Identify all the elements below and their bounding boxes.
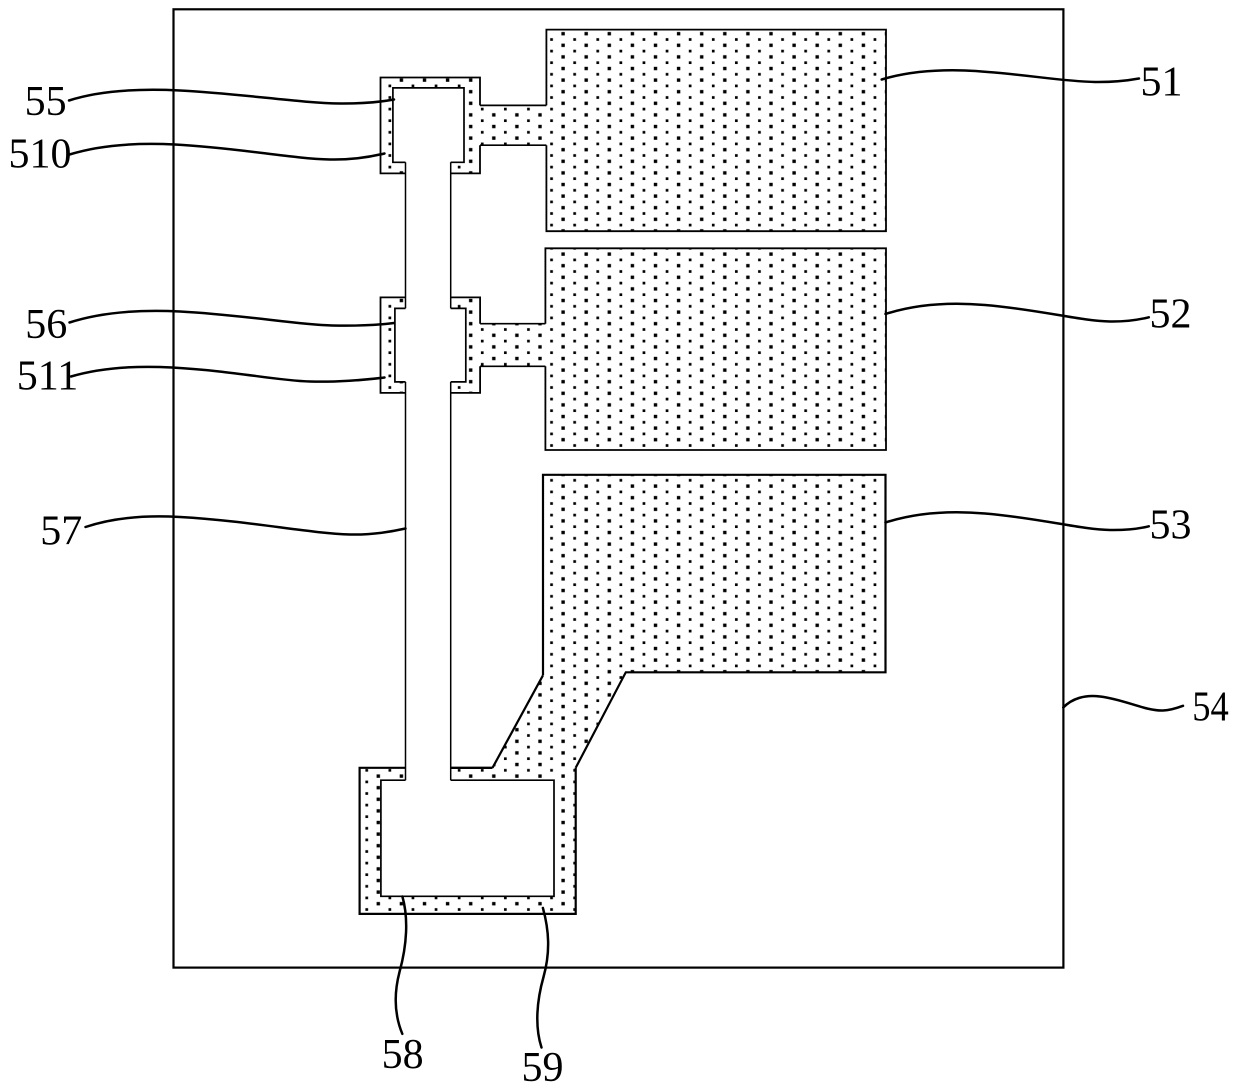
leader line 59 (537, 908, 548, 1048)
electrode 53 and bottom pad 59 dotted fill (360, 475, 886, 914)
svg-text:510: 510 (9, 132, 72, 178)
leader line 57 (86, 516, 406, 534)
svg-text:59: 59 (522, 1045, 564, 1091)
contact pad 56 outer outline (381, 297, 481, 393)
svg-text:53: 53 (1150, 503, 1192, 549)
leader line 58 (396, 897, 407, 1034)
contact pad 56 dotted frame fill (381, 297, 481, 393)
svg-text:55: 55 (25, 79, 67, 125)
contact pad 55 dotted frame fill (381, 78, 481, 174)
leader line 510 (70, 144, 385, 160)
contact pad 55 outer outline (381, 78, 481, 174)
electrode 52 dotted fill (545, 248, 886, 450)
contact hole 510 inner outline (393, 88, 464, 162)
electrode 52 outline (545, 248, 886, 450)
electrode 53 left diagonal edge (493, 675, 544, 768)
svg-text:54: 54 (1192, 685, 1229, 731)
connection bar 56-52 edges (480, 324, 545, 367)
electrode 53 outline (543, 475, 886, 768)
leader line 55 (69, 90, 394, 104)
connection bar 55-51 dotted fill (480, 105, 546, 145)
svg-text:511: 511 (17, 354, 78, 400)
connection bar 55-51 edges (480, 105, 546, 145)
svg-text:52: 52 (1150, 292, 1192, 338)
electrode 51 outline (546, 30, 886, 232)
svg-text:58: 58 (382, 1032, 424, 1078)
contact hole 511 inner outline (395, 308, 466, 382)
leader line 52 (886, 304, 1149, 322)
signal line 57 right edge (450, 162, 452, 780)
leader line 54 (1063, 696, 1183, 711)
electrode 51 dotted fill (546, 30, 886, 232)
connection bar 56-52 dotted fill (480, 324, 545, 367)
leader line 51 (882, 70, 1139, 82)
leader line 56 (70, 311, 395, 326)
bottom pad 58 inner outline (381, 780, 554, 896)
substrate border 54 (174, 9, 1064, 967)
signal line 57 left edge (405, 162, 407, 780)
svg-text:57: 57 (40, 509, 82, 555)
bottom pad 59 outer outline (360, 768, 576, 914)
svg-text:56: 56 (25, 302, 67, 348)
svg-text:51: 51 (1141, 59, 1183, 105)
leader line 511 (71, 367, 385, 382)
leader line 53 (886, 512, 1149, 530)
electrode 53 bottom horizontal edge (451, 767, 493, 769)
